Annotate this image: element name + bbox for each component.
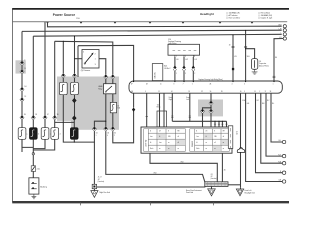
- wire HEAD top pins: [106, 79, 113, 84]
- svg-text:L: L: [281, 33, 282, 35]
- svg-text:J/C: J/C: [211, 176, 213, 178]
- ground branch L-wire: [94, 121, 105, 127]
- capacitor label: [259, 61, 269, 67]
- relay C10 label: [168, 39, 181, 45]
- svg-text:18: 18: [270, 91, 272, 93]
- svg-text:J/B No.2: J/B No.2: [164, 68, 170, 70]
- frame bottom edge: [12, 201, 289, 203]
- connector ticks on drop wires: [171, 116, 191, 117]
- C10 wire 2: [183, 57, 185, 81]
- header divider line: [13, 21, 288, 23]
- svg-text:DRL: DRL: [214, 136, 217, 138]
- capacitor C4: [251, 59, 257, 70]
- wire relay right pin: [99, 59, 106, 75]
- wire 189.8 drop: [189, 93, 191, 121]
- svg-text:E: E: [168, 131, 169, 133]
- node 94.4/142.1: [94, 142, 95, 143]
- wire HEAD bottom pin 2: [112, 94, 114, 127]
- wire relay left pin: [75, 58, 83, 60]
- page connector circle E1: [283, 25, 286, 41]
- left table texts: [150, 131, 180, 150]
- svg-text:LIGHT SW: LIGHT SW: [146, 139, 148, 147]
- connector pair 1B: [53, 115, 57, 120]
- S-fuse HEAD RH: [71, 82, 79, 94]
- svg-text:B6: B6: [275, 57, 277, 59]
- left column wire x=33: [32, 36, 34, 153]
- gray fuse patch left column: [16, 60, 26, 73]
- svg-text:2D: 2D: [221, 91, 223, 93]
- link wire y=122.8: [172, 120, 226, 122]
- svg-text:15: 15: [254, 91, 256, 93]
- link nodes: [202, 121, 223, 122]
- svg-text:G-B: G-B: [278, 180, 281, 182]
- wire 159.5 to big box: [159, 93, 161, 127]
- svg-text:W-B: W-B: [278, 25, 281, 27]
- ground wire to J5: [93, 131, 95, 184]
- fusible link FL1: [18, 128, 26, 140]
- big box bottom exit W-B: [150, 153, 217, 182]
- relay HEAD box: [98, 84, 115, 94]
- svg-text:1G: 1G: [96, 133, 98, 135]
- bus wire 1: [48, 22, 282, 27]
- lower circle labels: [278, 140, 282, 182]
- bus wire 5: [78, 45, 134, 81]
- svg-text:Relay: Relay: [98, 88, 102, 90]
- connector pair 1E: [20, 115, 24, 120]
- long box top pin nodes: [133, 81, 275, 82]
- connector table right: [190, 129, 230, 152]
- wire below S-fuse 2: [74, 95, 76, 116]
- connector column label: [236, 131, 238, 135]
- wire labels at top right: [278, 25, 282, 39]
- wire 172.3 drop: [171, 93, 173, 121]
- svg-text:Battery: Battery: [40, 185, 48, 188]
- right fan wire 3: [246, 93, 283, 181]
- right fan wire 16 (indicator): [240, 93, 242, 187]
- right table texts: [196, 131, 224, 150]
- svg-text:2C: 2C: [201, 91, 203, 93]
- wire label 172: [169, 96, 173, 101]
- svg-text:Flash: Flash: [150, 148, 153, 150]
- headlight control relay box: [82, 50, 99, 69]
- drops into big box: [215, 121, 227, 127]
- svg-text:17: 17: [265, 91, 267, 93]
- svg-text:3: 3: [95, 64, 96, 66]
- wire drop to S-fuse 1 in block A: [62, 41, 64, 82]
- wire 211 through block B: [210, 93, 212, 127]
- connector pair 1M2 (dark): [72, 98, 76, 103]
- svg-text:10: 10: [210, 91, 212, 93]
- bus wire 3: [33, 34, 281, 36]
- fusible link FL5 (dark): [70, 128, 78, 140]
- node bus3/233: [232, 34, 233, 35]
- svg-text:Headlight: Headlight: [200, 12, 214, 16]
- svg-text:E: E: [214, 131, 215, 133]
- right fan wire codes: [242, 100, 274, 105]
- svg-text:R-Y: R-Y: [267, 100, 269, 102]
- svg-text:G-B: G-B: [247, 103, 250, 105]
- svg-text:11: 11: [160, 84, 162, 86]
- svg-text:LH: LH: [159, 131, 161, 133]
- svg-text:1: 1: [95, 58, 96, 60]
- connector column box right of tables: [228, 126, 233, 150]
- bus 5 left drop wire: [77, 46, 79, 77]
- right fan wire 18: [271, 93, 283, 142]
- wire below S-fuse 1: [62, 95, 64, 123]
- wire labels right top: [229, 45, 277, 59]
- relay C10 inner contacts: [173, 49, 197, 51]
- C10 pin numbers: [176, 56, 195, 58]
- header junction ticks: [46, 22, 253, 24]
- svg-text:B: B: [196, 131, 197, 133]
- wire long box pin to diamond: [133, 93, 135, 107]
- connector table left: [144, 129, 186, 152]
- fusible link FL3: [41, 128, 49, 140]
- wire labels C10: [176, 59, 198, 75]
- bus wire 4: [55, 41, 113, 74]
- svg-text:16: 16: [240, 91, 242, 93]
- svg-text:Relay: Relay: [157, 107, 161, 109]
- svg-text:Low: Low: [196, 136, 198, 138]
- svg-text:R-B: R-B: [262, 103, 264, 105]
- tail relay housing: [157, 111, 167, 127]
- junction connector J5: [92, 184, 96, 188]
- svg-text:1D: 1D: [117, 106, 119, 108]
- svg-text:5: 5: [83, 52, 84, 54]
- left column wire x=22: [21, 31, 23, 152]
- C10 wire 3: [192, 57, 194, 81]
- connector pair IE3: [111, 127, 115, 132]
- frame left edge: [12, 9, 14, 202]
- ground triangle front left: [236, 187, 255, 196]
- node main junction: [32, 153, 34, 155]
- svg-text:B: B: [150, 131, 151, 133]
- wire below FL5: [73, 139, 75, 142]
- svg-text:R-Y: R-Y: [278, 154, 281, 156]
- svg-text:L-W: L-W: [279, 29, 282, 31]
- page bottom tick 3: [213, 202, 215, 205]
- svg-text:1G: 1G: [107, 133, 109, 135]
- page bottom tick 1: [80, 202, 82, 205]
- page bottom tick 2: [150, 202, 152, 205]
- wire top right A: [232, 35, 234, 81]
- svg-text:R-Y: R-Y: [257, 100, 259, 102]
- fusible link main: [31, 166, 40, 172]
- fuse box label: [164, 65, 170, 70]
- ground instrument panel: [186, 186, 215, 196]
- node capacitor tap: [245, 48, 246, 49]
- svg-text:14: 14: [171, 91, 173, 93]
- connector pair 1D: [31, 115, 35, 120]
- svg-text:(Noise Filter): (Noise Filter): [259, 64, 269, 67]
- connector pair IF1: [20, 61, 24, 66]
- svg-text:J5, J7: J5, J7: [98, 177, 102, 179]
- wire 146.7 to big box: [146, 93, 148, 127]
- node 74.3/142.1: [74, 142, 75, 143]
- S-fuse DRL in block A: [110, 102, 120, 112]
- right fan wire 2: [261, 93, 283, 163]
- svg-text:D9: D9: [236, 134, 238, 136]
- legend column 2: [258, 13, 273, 20]
- wire label 190: [186, 96, 190, 101]
- fusible link FL4: [51, 128, 59, 140]
- node col45 header: [44, 23, 45, 24]
- connector pair 2N: [209, 109, 213, 114]
- junction diamond dark: [132, 108, 135, 112]
- svg-text:1H: 1H: [24, 86, 26, 88]
- dimmer ground wire: [106, 131, 205, 182]
- connector bowtie 2: [182, 66, 185, 72]
- connector break A: [232, 46, 235, 47]
- wire S5 top: [73, 120, 75, 127]
- svg-text:R-B: R-B: [278, 161, 281, 163]
- svg-text:1G: 1G: [114, 133, 116, 135]
- svg-text:LH: LH: [206, 131, 208, 133]
- connector pair 2L: [209, 101, 213, 106]
- pin labels below block A: [96, 133, 116, 137]
- svg-text:DRL: DRL: [168, 136, 171, 138]
- battery: [29, 178, 48, 194]
- svg-text:3: 3: [185, 73, 186, 75]
- node 63.3/122.4: [63, 122, 64, 123]
- svg-text:RH: RH: [223, 131, 225, 133]
- connector pair 1L: [72, 73, 76, 78]
- connector pair 2M: [200, 109, 204, 114]
- wire 164 to big box: [163, 93, 165, 127]
- long box pin number texts: [131, 84, 274, 94]
- white notch in block A: [54, 121, 71, 142]
- connector pair IE1: [92, 127, 96, 132]
- svg-text:Flash: Flash: [196, 148, 199, 150]
- indicator bulb: [237, 148, 245, 153]
- J5 label: [98, 177, 105, 183]
- svg-text:12: 12: [158, 91, 160, 93]
- svg-text:1E: 1E: [24, 114, 26, 116]
- right fan wire 17: [266, 93, 283, 156]
- svg-text:8: 8: [194, 56, 195, 58]
- legend column 1: [226, 12, 241, 20]
- connector bowtie 3: [192, 66, 195, 72]
- svg-text:J11: J11: [211, 174, 213, 176]
- battery ground: [32, 194, 37, 199]
- connector break C (circle4 wire): [273, 76, 276, 77]
- svg-text:d: d: [60, 134, 61, 136]
- node 105.8/121.2: [105, 121, 106, 122]
- svg-text:Power Source: Power Source: [53, 13, 76, 17]
- connector pair 1K: [61, 73, 65, 78]
- right table gray cells: [204, 133, 229, 151]
- svg-text:Low: Low: [150, 136, 152, 138]
- svg-text:R-L: R-L: [279, 140, 282, 142]
- junction bar J11: [205, 182, 228, 187]
- C10 wire 1: [174, 57, 176, 81]
- big box bottom exit 2D: [221, 153, 223, 182]
- capacitor tap wire: [246, 49, 255, 59]
- svg-text:2F: 2F: [131, 84, 133, 86]
- connector pair IF2: [20, 70, 24, 75]
- svg-text:R-L: R-L: [272, 103, 274, 105]
- junction block main (long box): [129, 81, 282, 93]
- J11 label: [211, 174, 218, 180]
- svg-text:DIMMER: DIMMER: [192, 140, 194, 147]
- connector pair IH2: [20, 98, 24, 103]
- wire relay feed x=74.5: [74, 36, 76, 82]
- svg-text:18: 18: [229, 45, 231, 47]
- control unit box (outer): [141, 127, 232, 153]
- wire HEAD bottom pin 1: [105, 94, 107, 127]
- svg-text:2 W-L: 2 W-L: [76, 18, 80, 20]
- bus wire 2: [22, 30, 282, 31]
- block B branch wire: [203, 108, 212, 127]
- connector pair IH1: [20, 87, 24, 92]
- connector bowtie 1: [173, 66, 176, 72]
- connector pair 1N: [104, 75, 108, 80]
- left column wire x=45: [33, 22, 45, 149]
- left column tiny labels: [24, 60, 61, 136]
- link wire row y=122.4: [55, 121, 75, 123]
- wire to page circle 4: [274, 39, 283, 81]
- svg-text:2B: 2B: [210, 84, 212, 86]
- svg-text:RH: RH: [178, 131, 180, 133]
- svg-text:W-B: W-B: [247, 56, 250, 58]
- connector ticks on drops: [214, 123, 228, 125]
- gray junction block B: [198, 100, 223, 117]
- page connector circles lower: [282, 140, 285, 183]
- svg-text:1B: 1B: [57, 114, 59, 116]
- connector tick 146.7: [146, 116, 149, 118]
- S-fuse HEAD LH: [59, 82, 67, 94]
- right fan wire 15: [256, 93, 283, 173]
- connector pair 1P: [111, 75, 115, 80]
- svg-text:W-B: W-B: [181, 162, 184, 164]
- left column wire x=54.7: [33, 41, 54, 150]
- svg-text:W-B: W-B: [154, 173, 157, 175]
- frame top edge: [12, 8, 289, 10]
- connector pair IE2: [104, 127, 108, 132]
- wire top right B: [245, 30, 247, 81]
- wire to battery: [32, 155, 34, 178]
- node bus4 drop: [63, 41, 64, 42]
- svg-text:2: 2: [95, 53, 96, 55]
- connector break B: [244, 46, 247, 47]
- capacitor ground: [252, 69, 258, 74]
- svg-text:2.0L: 2.0L: [37, 168, 41, 170]
- splice square: [232, 68, 234, 70]
- bar to headlight gnd link: [228, 184, 241, 186]
- svg-text:Panel Gnd: Panel Gnd: [186, 192, 193, 194]
- svg-text:1J: 1J: [24, 68, 26, 70]
- node bus2/245.6: [245, 30, 246, 31]
- svg-text:(5) Dimmer: (5) Dimmer: [81, 69, 91, 72]
- svg-text:2E: 2E: [146, 84, 148, 86]
- relay C10 box: [168, 44, 200, 55]
- node 211/107.8: [210, 107, 211, 108]
- node bus3 drop: [74, 36, 75, 37]
- tail relay label: [157, 105, 161, 109]
- svg-text:D7: D7: [236, 131, 238, 133]
- connector pair 1C: [43, 115, 47, 120]
- svg-text:( ) : H-Fuse Block: ( ) : H-Fuse Block: [258, 13, 270, 15]
- connector pair 1M (dark): [72, 116, 76, 121]
- fusible link FL2 (dark): [30, 128, 38, 140]
- svg-text:13: 13: [188, 91, 190, 93]
- headlight return wire: [113, 111, 134, 143]
- node relay branch: [74, 58, 75, 59]
- ground night run: [91, 189, 110, 198]
- svg-text:L-B: L-B: [176, 59, 178, 61]
- fuse box pins: [154, 80, 161, 82]
- C10 pin ticks: [175, 55, 193, 57]
- left convergence wire: [22, 139, 33, 147]
- J5 collector wire: [97, 185, 205, 188]
- svg-text:1F: 1F: [24, 96, 26, 98]
- svg-text:Low: Low: [159, 142, 161, 144]
- fuse box narrow: [152, 64, 163, 81]
- left table gray cells: [157, 133, 185, 151]
- ground collector wire: [63, 122, 94, 142]
- gray junction block A: [57, 77, 119, 130]
